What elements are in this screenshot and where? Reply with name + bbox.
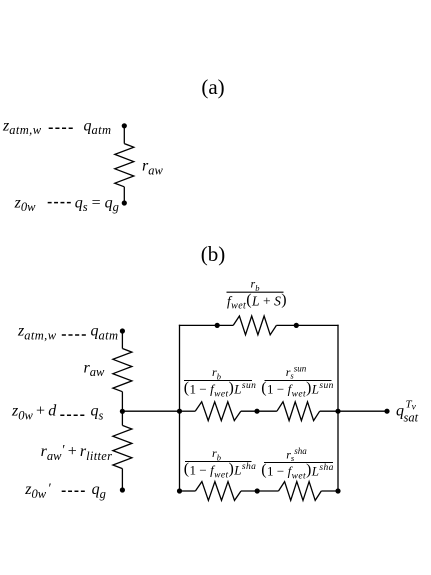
wire between middle resistors xyxy=(241,410,277,412)
dashed tie line (a) row1 xyxy=(49,127,73,129)
wire left bus to rb sha resistor xyxy=(180,490,196,492)
svg-text:raw′ + rlitter: raw′ + rlitter xyxy=(41,443,113,463)
value label rb/fwet(L+S) xyxy=(227,277,288,312)
resistor rb/(1-fwet)Lsun xyxy=(195,402,241,421)
svg-text:fwet(L + S): fwet(L + S) xyxy=(227,292,287,312)
wire resistor to q_g (b) xyxy=(121,469,123,490)
resistor r_aw'+r_litter (b) xyxy=(113,425,132,468)
value label rs_sha/(1-fwet)Lsha xyxy=(261,446,334,481)
svg-text:z0w: z0w xyxy=(14,194,36,214)
svg-text:(a): (a) xyxy=(201,75,224,99)
node middle branch center xyxy=(254,409,259,414)
net label q_s (b) xyxy=(91,403,104,423)
svg-text:qatm: qatm xyxy=(84,117,112,137)
dashed tie line (b) row1 xyxy=(62,334,86,336)
node q_s = q_g (a) xyxy=(122,200,127,205)
node label z_0w (a) xyxy=(14,194,36,214)
svg-text:sat: sat xyxy=(404,411,419,425)
label r_aw'+r_litter (b) xyxy=(41,443,113,463)
node middle branch at left bus xyxy=(177,409,182,414)
wire left bus to rb sun resistor xyxy=(180,410,196,412)
right bus wire xyxy=(337,325,339,492)
resistor rb/(1-fwet)Lsha xyxy=(195,482,241,501)
caption (a) xyxy=(201,75,224,99)
net label q_s = q_g (a) xyxy=(75,194,119,214)
resistor rs_sha/(1-fwet)Lsha xyxy=(279,482,322,501)
node label z_atm,w (a) xyxy=(2,117,42,137)
svg-text:rssha: rssha xyxy=(286,446,307,463)
node middle branch at right bus xyxy=(335,409,340,414)
wire rs_sha to right bus xyxy=(321,490,338,492)
value label rs_sun/(1-fwet)Lsun xyxy=(261,364,334,400)
svg-text:rb: rb xyxy=(212,446,221,463)
svg-text:qg: qg xyxy=(92,481,106,501)
node top branch right xyxy=(294,323,299,328)
wire rs_sun to right bus xyxy=(320,410,338,412)
label r_aw (b) xyxy=(84,359,105,379)
wire q_atm to resistor (a) xyxy=(123,126,125,144)
svg-text:z0w + d: z0w + d xyxy=(11,403,57,423)
svg-text:zatm,w: zatm,w xyxy=(17,323,57,343)
top branch left wire xyxy=(179,324,233,326)
wire between bottom resistors xyxy=(241,490,279,492)
dashed tie line (b) row3 xyxy=(62,490,85,492)
svg-text:zatm,w: zatm,w xyxy=(2,117,42,137)
value label rb/(1-fwet)Lsun xyxy=(184,365,257,400)
node label z_0w+d (b) xyxy=(11,403,57,423)
resistor r_aw (a) xyxy=(115,144,134,187)
wire q_atm to r_aw (b) xyxy=(121,331,123,349)
svg-text:z0w′: z0w′ xyxy=(24,481,51,501)
wire r_aw to q_s (b) xyxy=(121,392,123,412)
net label q_g (b) xyxy=(92,481,106,501)
top branch right wire xyxy=(276,324,338,326)
svg-text:qs = qg: qs = qg xyxy=(75,194,119,214)
resistor r_aw (b) xyxy=(113,349,132,392)
dashed tie line (b) row2 xyxy=(60,414,84,416)
wire q_s to r_aw'+r_litter (b) xyxy=(121,411,123,425)
svg-text:qs: qs xyxy=(91,403,104,423)
node bottom branch center xyxy=(255,488,260,493)
wire q_s to left bus xyxy=(122,410,179,412)
dashed tie line (a) row2 xyxy=(48,202,71,204)
svg-text:raw: raw xyxy=(142,158,163,178)
net label q_atm (a) xyxy=(84,117,112,137)
svg-text:qatm: qatm xyxy=(91,323,119,343)
node q_atm (a) xyxy=(122,123,127,128)
node q_s (b) xyxy=(120,409,125,414)
resistor rb/fwet(L+S) xyxy=(233,316,276,335)
node bottom branch at right bus xyxy=(335,488,340,493)
net label q_sat^Tv xyxy=(396,399,419,425)
node label z_0w' (b) xyxy=(24,481,51,501)
caption (b) xyxy=(201,242,226,266)
node q_sat xyxy=(384,409,389,414)
svg-text:(1 − fwet)Lsha: (1 − fwet)Lsha xyxy=(184,460,257,480)
net label q_atm (b) xyxy=(91,323,119,343)
value label rb/(1-fwet)Lsha xyxy=(184,446,257,481)
svg-text:(b): (b) xyxy=(201,242,226,266)
wire right bus to q_sat xyxy=(338,410,387,412)
svg-text:rssun: rssun xyxy=(286,364,307,381)
node top branch left xyxy=(215,323,220,328)
node label z_atm,w (b) xyxy=(17,323,57,343)
wire resistor to q_s (a) xyxy=(123,187,125,203)
svg-text:raw: raw xyxy=(84,359,105,379)
svg-text:(1 − fwet)Lsun: (1 − fwet)Lsun xyxy=(184,379,257,399)
node q_g (b) xyxy=(120,487,125,492)
svg-text:rb: rb xyxy=(212,365,221,382)
label r_aw (a) xyxy=(142,158,163,178)
left bus wire xyxy=(179,325,181,492)
bottom branch: node at left bus xyxy=(177,488,182,493)
node q_atm (b) xyxy=(120,328,125,333)
svg-text:(1 − fwet)Lsha: (1 − fwet)Lsha xyxy=(261,461,334,481)
svg-text:(1 − fwet)Lsun: (1 − fwet)Lsun xyxy=(261,379,334,399)
resistor rs_sun/(1-fwet)Lsun xyxy=(277,402,320,421)
